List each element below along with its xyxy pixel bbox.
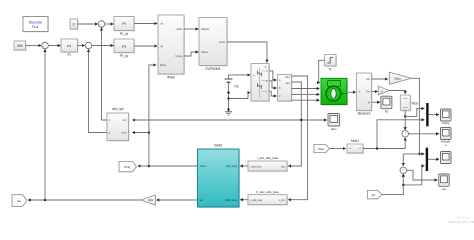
wire theta to Goto tag The bbox=[138, 165, 149, 167]
wire PI_iq to IPark uq bbox=[134, 45, 157, 47]
svg-text:abc_spl: abc_spl bbox=[112, 107, 124, 111]
wire Mod1 branch to mux1 bottom bbox=[377, 120, 424, 149]
wire TL to motor Tm bbox=[319, 60, 325, 82]
svg-text:I_abc_alfa_beta: I_abc_alfa_beta bbox=[257, 156, 279, 160]
wire inverter B to meas bbox=[269, 81, 276, 88]
wire Iabc to I_abc block bbox=[288, 82, 301, 166]
block SVPWM1 bbox=[199, 18, 228, 72]
svg-text:PI: PI bbox=[68, 53, 71, 57]
wire SMO theta out with branches bbox=[149, 165, 198, 167]
wire sum1 to scope thetaE bbox=[409, 133, 439, 135]
wire sum id to PI_id bbox=[105, 23, 114, 25]
mux2 bar bbox=[426, 148, 428, 171]
node speed junction bbox=[44, 199, 46, 201]
sum junction S_id bbox=[98, 21, 105, 29]
wire Vabc to U_abc block bbox=[288, 76, 307, 200]
block PI speed bbox=[61, 39, 79, 57]
svg-text:PI: PI bbox=[67, 44, 71, 49]
svg-text:pulse: pulse bbox=[219, 40, 226, 44]
wire we est to sum2 bottom bbox=[382, 174, 404, 195]
svg-text:PI: PI bbox=[122, 21, 126, 26]
sum junction S_w speed bbox=[42, 42, 49, 50]
wire U block to SMO bbox=[240, 199, 248, 201]
svg-text:CSDN @SMO_PMSM: CSDN @SMO_PMSM bbox=[448, 220, 474, 224]
block I_abc to alfa beta bbox=[248, 156, 288, 172]
wire inverter A to meas bbox=[269, 71, 276, 80]
wire gain to goto w and feedback bbox=[28, 199, 140, 201]
block inverter bbox=[251, 64, 270, 103]
block Mod1 bbox=[347, 139, 364, 154]
wire dc minus to inverter bbox=[229, 93, 251, 99]
svg-text:we: we bbox=[442, 187, 446, 191]
scope Te bbox=[381, 96, 392, 113]
scope iabc bbox=[328, 114, 340, 132]
svg-text:[The]: [The] bbox=[124, 165, 130, 169]
svg-text:Valpha: Valpha bbox=[201, 27, 209, 31]
svg-text:-: - bbox=[405, 135, 406, 138]
svg-text:500: 500 bbox=[17, 44, 23, 48]
svg-text:we: we bbox=[200, 199, 204, 202]
svg-text:theta: theta bbox=[160, 63, 166, 67]
block Measure bbox=[357, 73, 373, 116]
sum junction S_iq bbox=[85, 42, 92, 50]
svg-text:Vabc: Vabc bbox=[285, 77, 291, 79]
constant block 0 bbox=[70, 19, 79, 30]
wire Mod to mux1 top bbox=[405, 109, 424, 117]
constant block 500 bbox=[14, 41, 27, 51]
wire sum speed to PI speed bbox=[48, 45, 60, 47]
svg-text:Ualfa_beta: Ualfa_beta bbox=[225, 198, 238, 202]
mux1 bar bbox=[426, 103, 428, 126]
from tag The right bbox=[314, 144, 330, 152]
svg-text:+: + bbox=[253, 73, 255, 77]
wire iabc to scope iabc bbox=[301, 119, 326, 121]
svg-text:SVPWM1: SVPWM1 bbox=[205, 67, 221, 71]
wire PI speed to sum iq bbox=[78, 45, 85, 47]
block U_abc to alfa beta bbox=[248, 190, 288, 206]
svg-text:30/pi: 30/pi bbox=[148, 199, 154, 202]
wire Mod to sum1 top bbox=[404, 116, 406, 129]
block three-phase measurement bbox=[278, 75, 293, 103]
svg-text:Vbeta: Vbeta bbox=[201, 50, 208, 54]
wire mux1 to scope theta bbox=[429, 114, 439, 116]
wire SMO we to gain bbox=[157, 199, 198, 201]
wire iq feedback bbox=[89, 49, 108, 132]
svg-text:-: - bbox=[253, 92, 254, 96]
svg-text:SMO: SMO bbox=[214, 144, 223, 148]
wire theta to IPark theta bbox=[149, 65, 156, 133]
sum junction theta error bbox=[402, 131, 409, 138]
wire sum iq to PI_iq bbox=[92, 45, 114, 47]
wire Mod1 out to sum1 bottom bbox=[363, 138, 405, 149]
powergui block Discrete bbox=[23, 17, 49, 33]
svg-text:[The]: [The] bbox=[318, 147, 324, 151]
svg-text:iabc: iabc bbox=[331, 127, 337, 131]
node Mod junction bbox=[404, 115, 406, 117]
wire meas c to motor bbox=[292, 99, 320, 101]
svg-text:Ubeta: Ubeta bbox=[175, 54, 182, 58]
svg-text:U_abc_alfa_beta: U_abc_alfa_beta bbox=[256, 190, 279, 194]
svg-text:-: - bbox=[403, 171, 404, 174]
block PI_id bbox=[114, 17, 135, 37]
wire The to p gain bbox=[372, 91, 378, 93]
svg-text:30/pi: 30/pi bbox=[394, 77, 401, 81]
wire motor to measure bbox=[347, 91, 356, 93]
wire id feedback bbox=[102, 28, 108, 120]
wire PI_id to IPark ud bbox=[134, 23, 157, 25]
svg-text:CSDN @xxxx: CSDN @xxxx bbox=[455, 216, 472, 220]
node we junction bbox=[402, 184, 404, 186]
svg-text:u_abc: u_abc bbox=[279, 200, 286, 202]
svg-text:-: - bbox=[101, 25, 102, 28]
block SMO bbox=[198, 144, 241, 209]
goto tag w left bbox=[12, 195, 27, 207]
dc source bbox=[225, 75, 240, 112]
sum junction speed error bbox=[400, 167, 407, 174]
svg-text:u_alfa_beta: u_alfa_beta bbox=[250, 199, 263, 202]
block IPark bbox=[158, 15, 185, 80]
svg-text:TL: TL bbox=[328, 67, 332, 71]
gain speed left bbox=[140, 195, 155, 205]
svg-text:The: The bbox=[366, 91, 371, 94]
svg-text:Mod1: Mod1 bbox=[351, 139, 359, 143]
wire The tag to Mod1 bbox=[330, 148, 346, 150]
svg-text:Measure: Measure bbox=[358, 112, 371, 116]
node theta junction mid bbox=[148, 131, 150, 133]
wire theta up branch bbox=[148, 133, 150, 167]
svg-text:thetaE: thetaE bbox=[441, 140, 450, 144]
node Mod1 junction bbox=[376, 147, 378, 149]
wire pulse to inverter gate bbox=[227, 42, 267, 62]
svg-text:DC: DC bbox=[235, 84, 240, 88]
gain 30/pi bbox=[389, 72, 411, 84]
wire theta to abc_dq bbox=[133, 132, 149, 134]
svg-text:theta: theta bbox=[442, 121, 449, 125]
svg-text:Mod: Mod bbox=[412, 101, 418, 105]
block PI_iq bbox=[114, 39, 135, 58]
wire iabc to abc_dq bbox=[133, 119, 302, 121]
wire mux2 to scope w bbox=[428, 158, 439, 160]
svg-text:Discrete: Discrete bbox=[29, 20, 42, 24]
svg-text:-: - bbox=[45, 47, 46, 50]
svg-text:-: - bbox=[88, 47, 89, 50]
wire wm to 30/pi gain bbox=[372, 78, 388, 80]
svg-text:PI_id: PI_id bbox=[120, 32, 128, 36]
svg-text:PI_iq: PI_iq bbox=[120, 54, 128, 58]
node iabc junction bbox=[300, 119, 302, 121]
block abc_dq bbox=[107, 107, 130, 142]
gain p bbox=[378, 86, 389, 95]
svg-text:Ualfa: Ualfa bbox=[176, 27, 183, 31]
wire speed feedback up bbox=[44, 49, 46, 200]
svg-text:theta: theta bbox=[121, 132, 127, 135]
wire meas b to motor bbox=[292, 93, 320, 95]
svg-text:C: C bbox=[266, 90, 268, 93]
svg-text:[w]: [w] bbox=[372, 193, 376, 197]
wire sum2 to scope we bbox=[407, 170, 438, 180]
svg-text:Te: Te bbox=[385, 110, 389, 114]
from tag w right bbox=[367, 190, 381, 198]
svg-text:wm: wm bbox=[366, 78, 370, 81]
wire Mod out down bbox=[404, 111, 406, 117]
svg-text:IPark: IPark bbox=[167, 76, 176, 80]
svg-text:i_alfa_beta: i_alfa_beta bbox=[250, 165, 262, 168]
wire meas a to motor bbox=[292, 88, 320, 90]
wire dc plus to inverter bbox=[229, 74, 251, 76]
block Mod bbox=[400, 95, 418, 112]
wire I block to SMO bbox=[240, 165, 248, 167]
goto tag The left bbox=[119, 162, 137, 172]
wire p to Mod top bbox=[389, 91, 405, 94]
wire branch to sum2 top bbox=[403, 154, 419, 166]
block PMSM motor bbox=[321, 78, 348, 105]
svg-text:PI: PI bbox=[122, 44, 126, 49]
wire inverter C to meas bbox=[269, 91, 276, 96]
svg-text:ialfa_beta: ialfa_beta bbox=[226, 164, 238, 168]
wire Te to scope bbox=[372, 101, 380, 103]
wire 500 to sum speed bbox=[26, 45, 42, 47]
svg-text:Ts s.: Ts s. bbox=[32, 25, 39, 29]
scope thetaE bbox=[441, 128, 452, 148]
ground symbol bbox=[225, 112, 232, 115]
svg-text:[w]: [w] bbox=[17, 199, 21, 203]
wire Ualfa to Valpha bbox=[184, 28, 198, 30]
wire we est to mux2 bottom bbox=[403, 166, 424, 185]
node theta junction low bbox=[148, 165, 150, 167]
scope theta bbox=[441, 109, 452, 125]
svg-text:m: m bbox=[358, 91, 360, 94]
wire Ubeta to Vbeta bbox=[184, 52, 198, 56]
node dc minus junctions bbox=[227, 91, 229, 93]
scope w bbox=[441, 152, 452, 164]
scope we bbox=[439, 174, 450, 191]
wire 30/pi down to mux2 top bbox=[412, 78, 425, 154]
wire 0 to sum id bbox=[78, 23, 98, 25]
svg-text:theta: theta bbox=[200, 164, 206, 168]
node 30/pi junction bbox=[418, 153, 420, 155]
block TL step bbox=[325, 55, 338, 72]
